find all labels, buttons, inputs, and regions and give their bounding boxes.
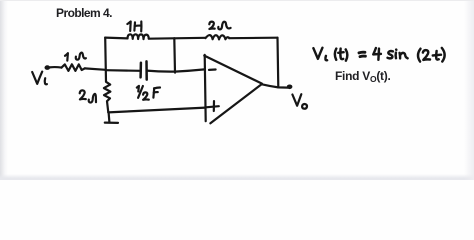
op-amp minus sign — [209, 68, 216, 71]
wire bottom (ground node to non-inverting input) — [108, 108, 205, 113]
label 1/2 F — [137, 86, 160, 100]
node Vi (input terminal dot) — [45, 65, 51, 70]
op-amp U1 left edge — [205, 55, 206, 121]
4 — [373, 48, 381, 54]
wire op-amp output — [262, 84, 288, 87]
= — [359, 51, 365, 55]
wire top rail middle segment — [149, 37, 206, 40]
ground bar — [105, 121, 118, 124]
) — [442, 48, 445, 62]
label 1ohm — [65, 53, 86, 61]
label Vo — [292, 94, 307, 109]
capacitor 1/2 F plate left — [139, 63, 142, 78]
wire ground stem — [107, 112, 110, 122]
wire top rail right segment — [229, 37, 277, 40]
( — [418, 49, 421, 62]
op-amp U1 top edge — [204, 56, 262, 84]
2 — [423, 50, 430, 60]
resistor 2ohm (top rail) — [206, 35, 230, 39]
) — [346, 49, 348, 60]
inductor 1H — [128, 34, 149, 39]
wire tap vertical (top rail to inverting line) — [173, 38, 176, 72]
t — [340, 49, 343, 59]
t — [436, 51, 439, 60]
wire R1ohm to node A — [85, 68, 106, 69]
capacitor 1/2 F plate right — [145, 61, 148, 79]
op-amp plus sign — [206, 101, 219, 111]
label Vi — [32, 72, 47, 85]
V — [313, 48, 322, 59]
wire node A to capacitor — [106, 69, 140, 72]
label 2ohm (vertical resistor) — [80, 90, 96, 102]
wire Vi to R 1ohm — [50, 66, 62, 69]
wire capacitor to op-amp inverting input — [147, 69, 205, 71]
resistor 1ohm (horizontal) — [62, 64, 85, 71]
op-amp U1 bottom edge — [210, 84, 262, 123]
wire node A up to top rail — [104, 38, 107, 71]
s — [388, 51, 393, 58]
resistor 2ohm (vertical to ground) — [104, 70, 111, 112]
handwritten equation Vi(t) = 4 sin (2t) — [313, 48, 444, 62]
label 2ohm (top) — [209, 22, 230, 30]
i — [394, 53, 397, 59]
( — [335, 49, 336, 60]
label 1H — [127, 22, 141, 32]
subscript i — [325, 56, 327, 60]
wire top rail left segment — [105, 36, 127, 39]
node output dot — [287, 85, 293, 90]
wire right vertical (feedback down to output) — [276, 38, 279, 88]
n — [398, 53, 401, 59]
